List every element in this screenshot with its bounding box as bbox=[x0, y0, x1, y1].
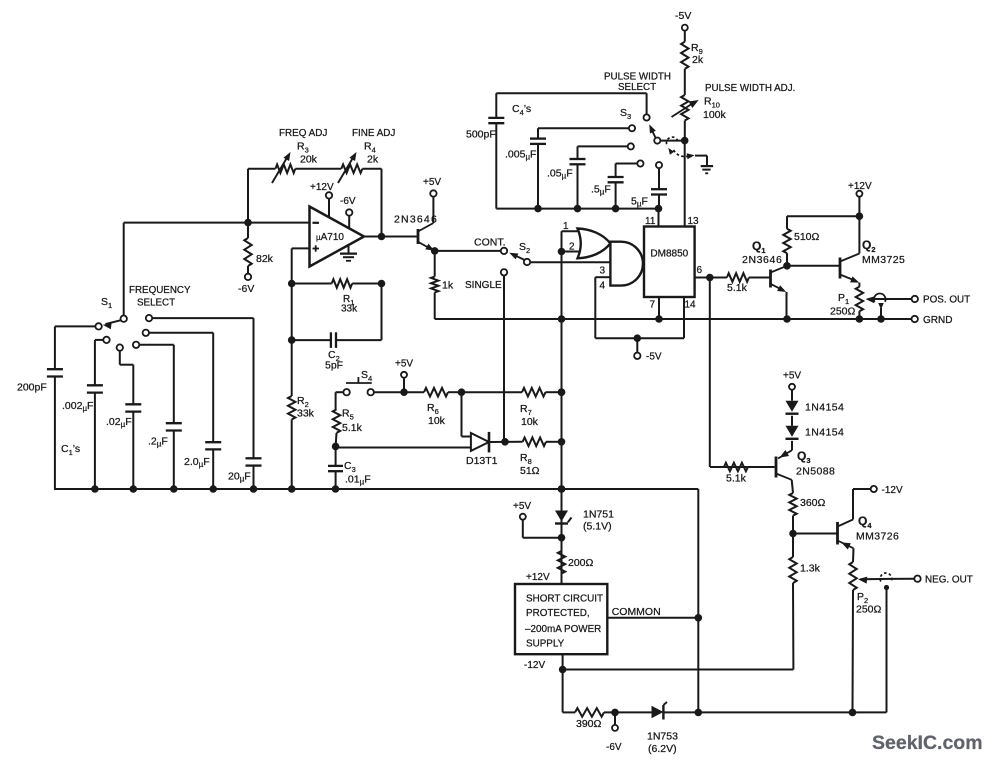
svg-text:-5V: -5V bbox=[646, 352, 662, 363]
svg-text:COMMON: COMMON bbox=[612, 606, 661, 618]
svg-text:–200mA POWER: –200mA POWER bbox=[525, 624, 601, 635]
svg-text:PROTECTED,: PROTECTED, bbox=[526, 608, 590, 619]
svg-text:100k: 100k bbox=[703, 109, 727, 121]
svg-text:20k: 20k bbox=[300, 154, 318, 166]
svg-text:1: 1 bbox=[563, 221, 569, 232]
svg-text:.01µF: .01µF bbox=[345, 474, 371, 487]
svg-text:.002µF: .002µF bbox=[62, 400, 93, 413]
svg-text:1N4154: 1N4154 bbox=[805, 427, 844, 439]
svg-text:SUPPLY: SUPPLY bbox=[526, 639, 565, 650]
svg-text:SELECT: SELECT bbox=[137, 298, 175, 309]
svg-text:2N5088: 2N5088 bbox=[796, 466, 835, 478]
svg-text:DM8850: DM8850 bbox=[650, 249, 688, 260]
svg-text:2k: 2k bbox=[367, 154, 379, 166]
svg-text:+5V: +5V bbox=[513, 501, 531, 512]
svg-text:250Ω: 250Ω bbox=[830, 306, 856, 318]
svg-text:5pF: 5pF bbox=[325, 360, 343, 372]
svg-text:+5V: +5V bbox=[783, 371, 801, 382]
svg-text:µA710: µA710 bbox=[316, 232, 344, 243]
svg-text:+12V: +12V bbox=[310, 182, 334, 193]
svg-text:51Ω: 51Ω bbox=[520, 465, 540, 477]
svg-text:10k: 10k bbox=[521, 416, 539, 428]
svg-text:1N4154: 1N4154 bbox=[805, 402, 844, 414]
svg-text:(5.1V): (5.1V) bbox=[583, 521, 612, 533]
svg-text:PULSE WIDTH ADJ.: PULSE WIDTH ADJ. bbox=[705, 83, 795, 94]
svg-text:D13T1: D13T1 bbox=[466, 455, 498, 467]
svg-text:2N3646: 2N3646 bbox=[394, 214, 438, 226]
svg-text:SINGLE: SINGLE bbox=[465, 280, 502, 291]
svg-text:1N753: 1N753 bbox=[647, 731, 678, 743]
svg-text:2: 2 bbox=[569, 242, 575, 253]
svg-text:FINE ADJ: FINE ADJ bbox=[352, 128, 395, 139]
svg-text:SELECT: SELECT bbox=[618, 82, 656, 93]
svg-text:33k: 33k bbox=[297, 408, 315, 420]
svg-text:200Ω: 200Ω bbox=[568, 557, 594, 569]
svg-text:-12V: -12V bbox=[524, 660, 545, 671]
svg-text:2.0µF: 2.0µF bbox=[184, 456, 210, 469]
svg-text:5.1k: 5.1k bbox=[727, 282, 748, 294]
svg-text:+12V: +12V bbox=[526, 572, 550, 583]
svg-text:SeekIC.com: SeekIC.com bbox=[872, 732, 983, 754]
svg-text:+12V: +12V bbox=[848, 181, 872, 192]
svg-text:MM3726: MM3726 bbox=[856, 531, 899, 543]
svg-text:3: 3 bbox=[600, 266, 606, 277]
svg-text:PULSE WIDTH: PULSE WIDTH bbox=[604, 72, 671, 83]
svg-text:-6V: -6V bbox=[340, 196, 356, 207]
svg-text:5.1k: 5.1k bbox=[342, 422, 363, 434]
svg-text:(6.2V): (6.2V) bbox=[648, 743, 677, 755]
svg-text:+5V: +5V bbox=[395, 359, 413, 370]
svg-text:.05µF: .05µF bbox=[547, 168, 573, 181]
svg-text:500pF: 500pF bbox=[466, 129, 496, 141]
svg-text:GRND: GRND bbox=[923, 315, 952, 326]
svg-text:10k: 10k bbox=[428, 415, 446, 427]
svg-text:-6V: -6V bbox=[606, 742, 622, 753]
svg-text:MM3725: MM3725 bbox=[862, 254, 905, 266]
svg-text:FREQ ADJ: FREQ ADJ bbox=[279, 128, 327, 139]
svg-text:CONT.: CONT. bbox=[474, 237, 506, 249]
svg-text:390Ω: 390Ω bbox=[576, 718, 602, 730]
svg-text:20µF: 20µF bbox=[228, 471, 251, 484]
svg-text:+5V: +5V bbox=[423, 177, 441, 188]
svg-text:14: 14 bbox=[685, 300, 697, 311]
svg-text:5.1k: 5.1k bbox=[726, 473, 747, 485]
svg-text:2N3646: 2N3646 bbox=[742, 254, 782, 266]
svg-text:-6V: -6V bbox=[238, 283, 254, 295]
svg-text:.005µF: .005µF bbox=[505, 149, 536, 162]
svg-text:-5V: -5V bbox=[675, 10, 691, 22]
svg-text:4: 4 bbox=[600, 281, 606, 292]
svg-text:360Ω: 360Ω bbox=[800, 497, 826, 509]
svg-text:6: 6 bbox=[697, 265, 703, 276]
svg-text:FREQUENCY: FREQUENCY bbox=[129, 285, 191, 296]
svg-text:1.3k: 1.3k bbox=[800, 563, 821, 575]
svg-text:13: 13 bbox=[688, 216, 700, 227]
svg-text:1N751: 1N751 bbox=[583, 509, 614, 521]
svg-text:NEG. OUT: NEG. OUT bbox=[925, 575, 973, 586]
svg-text:POS. OUT: POS. OUT bbox=[923, 295, 970, 306]
svg-text:250Ω: 250Ω bbox=[856, 604, 882, 616]
svg-text:1k: 1k bbox=[442, 280, 454, 292]
svg-text:-12V: -12V bbox=[882, 485, 903, 496]
svg-text:11: 11 bbox=[645, 216, 656, 227]
svg-text:33k: 33k bbox=[341, 304, 358, 315]
svg-text:2k: 2k bbox=[692, 54, 704, 66]
svg-text:.02µF: .02µF bbox=[106, 416, 132, 429]
svg-text:510Ω: 510Ω bbox=[794, 231, 820, 243]
svg-text:7: 7 bbox=[650, 300, 656, 311]
svg-text:200pF: 200pF bbox=[17, 382, 47, 394]
svg-text:82k: 82k bbox=[256, 253, 274, 265]
svg-text:SHORT CIRCUIT: SHORT CIRCUIT bbox=[526, 594, 603, 605]
